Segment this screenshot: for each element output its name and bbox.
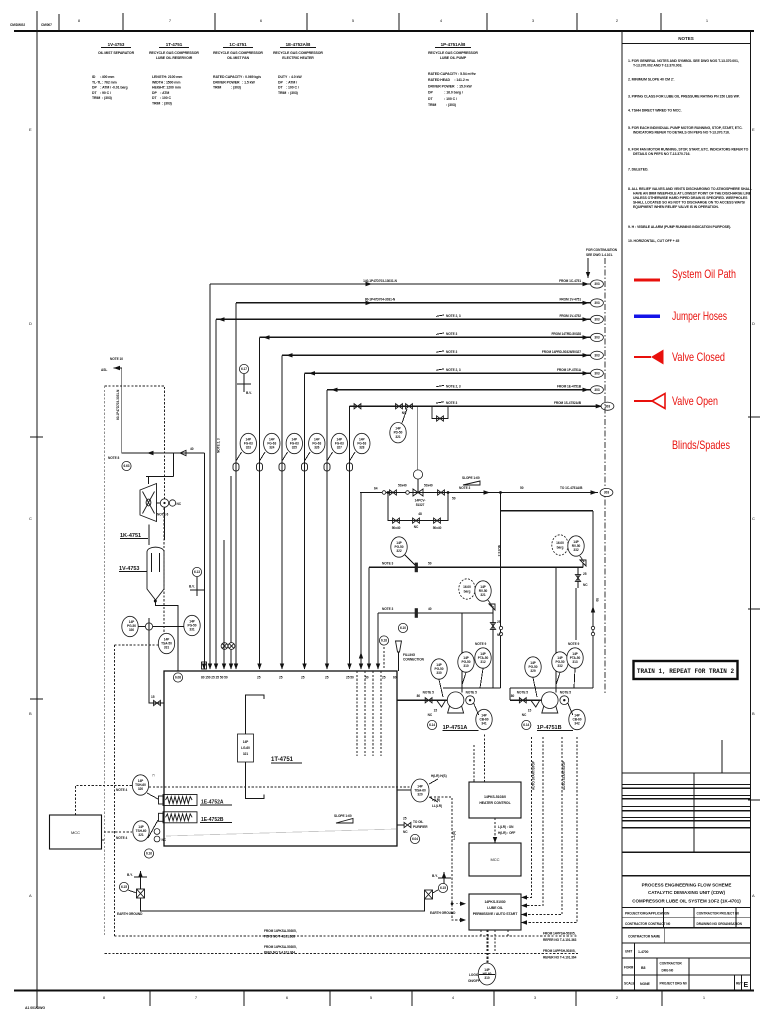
svg-text:NOTE 5: NOTE 5	[517, 691, 528, 695]
svg-text:Valve Closed: Valve Closed	[672, 350, 725, 364]
svg-text:NOTE 10: NOTE 10	[110, 357, 123, 361]
svg-text:NOTE 3: NOTE 3	[446, 401, 457, 405]
small valve circles above tank	[221, 643, 228, 650]
valve stub below discharge A	[577, 567, 579, 588]
L3 drop pipe	[215, 319, 217, 669]
heater control box	[469, 782, 521, 818]
svg-text:C: C	[752, 516, 755, 521]
arrow on L1	[366, 282, 373, 286]
separator overhead pipe	[223, 540, 225, 669]
svg-text:CONTRACTOR PROJECT N0: CONTRACTOR PROJECT N0	[697, 912, 740, 916]
svg-text:9. H : VISIBLE ALARM (PUMP RUN: 9. H : VISIBLE ALARM (PUMP RUNNING INDIC…	[628, 225, 731, 229]
svg-text:DT : 100 C /: DT : 100 C /	[428, 97, 457, 101]
pump motor/check valve	[560, 696, 569, 705]
separator drain	[155, 601, 178, 672]
svg-text:NOTE 4: NOTE 4	[116, 836, 127, 840]
vertical pipe to reservoir x=259.5	[259, 337, 261, 669]
svg-text:25: 25	[497, 620, 501, 624]
svg-text:DT : 100 C /: DT : 100 C /	[278, 86, 299, 90]
arrow on L4	[263, 335, 270, 339]
svg-text:321: 321	[480, 593, 485, 597]
svg-text:6.08: 6.08	[175, 676, 181, 680]
svg-text:50: 50	[365, 676, 369, 680]
arrow into tank	[280, 664, 284, 670]
svg-text:Blinds/Spades: Blinds/Spades	[672, 438, 730, 452]
svg-text:B.V.: B.V.	[246, 391, 252, 395]
pressure transmitter balloon PTA-50 312	[475, 648, 491, 668]
suction fittings pump B	[514, 699, 542, 701]
header line L4 FROM 14TRD-50328	[260, 336, 591, 338]
lube oil reservoir 1T-4751	[164, 671, 397, 846]
svg-text:7. DELETED.: 7. DELETED.	[628, 168, 648, 172]
flow glass balloon FG-63 327	[331, 433, 347, 453]
RV-B tailpipe	[575, 588, 577, 640]
svg-text:TSH-60: TSH-60	[135, 783, 146, 787]
svg-text:TRIM : (303): TRIM : (303)	[92, 96, 112, 100]
svg-text:3. PIPING CLASS FOR LUBE OIL P: 3. PIPING CLASS FOR LUBE OIL PRESSURE RA…	[628, 95, 740, 99]
svg-text:1. FOR GENERAL NOTES AND SYMBO: 1. FOR GENERAL NOTES AND SYMBOL SEE DWG …	[628, 59, 739, 63]
svg-text:NOTE 2, 3: NOTE 2, 3	[446, 368, 461, 372]
auto start/stop signal 1	[521, 737, 531, 897]
svg-text:25: 25	[382, 676, 386, 680]
pressure gauge balloon PG-50 322	[405, 555, 415, 565]
header line L6 FROM 1P-4751A	[305, 372, 591, 374]
svg-text:6.63: 6.63	[123, 464, 129, 468]
suction fittings pump A	[420, 699, 448, 701]
svg-text:PROJECT DRG N0: PROJECT DRG N0	[660, 982, 688, 986]
svg-text:TSH-60: TSH-60	[136, 829, 147, 833]
svg-text:48: 48	[418, 512, 422, 516]
auto start/stop signal 4	[521, 737, 577, 923]
arrow into 303 L6	[583, 371, 590, 375]
svg-text:50: 50	[452, 497, 456, 501]
svg-text:342: 342	[574, 722, 579, 726]
fan outlet pipe	[230, 476, 232, 669]
svg-text:HEIGHT: 1200 mm: HEIGHT: 1200 mm	[152, 86, 181, 90]
svg-text:313: 313	[572, 660, 577, 664]
auto start/stop signal 3	[521, 737, 562, 915]
svg-text:PEFS NO T-4.101.363: PEFS NO T-4.101.363	[264, 935, 295, 939]
svg-text:80: 80	[417, 694, 421, 698]
svg-text:REFER NO T-4.101.363: REFER NO T-4.101.363	[543, 938, 577, 942]
temperature indicator switch balloon TISA-60 320	[411, 779, 429, 802]
arrow into tank	[229, 664, 233, 670]
svg-text:8. ALL RELIEF VALVES AND VENTS: 8. ALL RELIEF VALVES AND VENTS DISCHARGI…	[628, 187, 753, 191]
svg-text:1C-4751: 1C-4751	[229, 42, 247, 47]
svg-text:6.18: 6.18	[381, 639, 387, 643]
svg-text:332: 332	[573, 548, 578, 552]
flow glass balloon FG-63 326	[309, 433, 325, 453]
svg-text:PG-50: PG-50	[435, 667, 444, 671]
svg-text:NOTE 8: NOTE 8	[108, 456, 119, 460]
blind spade on discharge A	[415, 563, 418, 573]
motor NC circle	[169, 500, 175, 506]
off-page connector L1 303	[591, 280, 604, 288]
svg-text:PG-50: PG-50	[395, 545, 404, 549]
set pressure balloon barg	[459, 579, 475, 599]
svg-text:PURIFIER: PURIFIER	[413, 825, 428, 829]
svg-text:FG-63: FG-63	[312, 441, 321, 445]
svg-text:FROM 1E-4751B: FROM 1E-4751B	[557, 385, 582, 389]
svg-text:B.Y.: B.Y.	[432, 874, 438, 878]
svg-text:L-L(S): L-L(S)	[452, 831, 456, 840]
svg-text:PROCESS ENGINEERING FLOW SCHEM: PROCESS ENGINEERING FLOW SCHEME	[642, 883, 732, 888]
svg-text:AUTO START/STOP: AUTO START/STOP	[562, 760, 566, 790]
svg-text:CB-60: CB-60	[480, 717, 489, 721]
svg-text:6.15: 6.15	[121, 885, 127, 889]
pressure gauge balloon PG-50 330	[122, 616, 138, 636]
suction valve pump A	[425, 698, 432, 703]
svg-text:NOTE 5: NOTE 5	[466, 691, 477, 695]
svg-text:HAVE AN 8MM WEEPHOLE AT LOWEST: HAVE AN 8MM WEEPHOLE AT LOWEST POINT OF …	[633, 192, 752, 196]
valve NC on L8	[406, 404, 413, 409]
svg-text:FROM 1V-4751: FROM 1V-4751	[559, 298, 581, 302]
arrow into 303 L5	[583, 353, 590, 357]
svg-text:MCC: MCC	[490, 857, 499, 862]
svg-text:14PKS-51030: 14PKS-51030	[484, 900, 505, 904]
vent line to fan	[122, 452, 205, 454]
svg-text:6. FOR FAN MOTOR RUNNING, STOP: 6. FOR FAN MOTOR RUNNING, STOP, START, E…	[628, 148, 749, 152]
svg-text:D: D	[29, 321, 32, 326]
svg-text:CB-60: CB-60	[573, 717, 582, 721]
svg-text:NC: NC	[403, 830, 408, 834]
svg-text:303: 303	[594, 354, 599, 358]
svg-text:CM/DWG2: CM/DWG2	[10, 23, 25, 27]
svg-text:NC: NC	[177, 502, 182, 506]
svg-text:DRIVER POWER : 1.5 kW: DRIVER POWER : 1.5 kW	[213, 80, 255, 84]
svg-text:321: 321	[395, 435, 400, 439]
svg-text:RV-50: RV-50	[479, 589, 488, 593]
svg-text:TRIM : (303): TRIM : (303)	[278, 91, 298, 95]
flow glass balloon FG-63 328	[354, 433, 370, 453]
table 1E-4752A/B data	[278, 75, 302, 95]
svg-text:LUBE OIL RESERVOIR: LUBE OIL RESERVOIR	[156, 56, 193, 60]
svg-text:LUBE OIL PUMP: LUBE OIL PUMP	[440, 56, 467, 60]
permissive box	[469, 894, 521, 930]
flow glass balloon FG-63 323	[240, 433, 256, 453]
svg-text:B.V.: B.V.	[189, 585, 195, 589]
continuation arrow	[587, 258, 589, 278]
svg-text:NC: NC	[162, 838, 167, 842]
off-page connector L5 303	[591, 351, 604, 359]
MCC control box	[469, 843, 521, 876]
pump 1P-4751A	[447, 692, 464, 713]
svg-text:50: 50	[428, 562, 432, 566]
svg-text:60: 60	[393, 676, 397, 680]
svg-text:barg: barg	[557, 545, 564, 549]
svg-text:D: D	[752, 321, 755, 326]
drawing reference 6.63	[122, 461, 131, 470]
suction drop A	[500, 493, 502, 689]
vibration signals from check monitors	[484, 735, 486, 783]
svg-text:System Oil Path: System Oil Path	[672, 267, 736, 281]
LEGEND	[634, 267, 736, 452]
svg-text:DRG N0: DRG N0	[662, 969, 674, 973]
table 1T-4751 data	[152, 75, 182, 106]
drawing reference 6.14	[522, 720, 531, 729]
svg-text:1-4700: 1-4700	[638, 950, 649, 954]
svg-text:15: 15	[528, 709, 532, 713]
table 1V-4753 data	[92, 75, 128, 100]
svg-text:15: 15	[434, 709, 438, 713]
svg-text:FROM 14PRD-50326/50327: FROM 14PRD-50326/50327	[542, 350, 581, 354]
electric heater 1E-4752B	[163, 812, 197, 823]
purifier valve NC	[404, 822, 411, 827]
arrow into tank	[347, 664, 351, 670]
arrow down	[586, 272, 590, 278]
svg-text:NOTE 5: NOTE 5	[423, 691, 434, 695]
pressure gauge balloon PG-50 331	[184, 615, 200, 635]
auto start/stop signal 2	[521, 737, 543, 906]
temperature switch high balloon TSH-60 321	[133, 821, 149, 841]
svg-text:6.14: 6.14	[523, 723, 529, 727]
svg-text:FROM 14TRD-50328: FROM 14TRD-50328	[552, 332, 582, 336]
arrow into tank	[202, 664, 206, 670]
pressure transmitter balloon PTA-50 313	[567, 648, 583, 668]
svg-text:FG-63: FG-63	[335, 441, 344, 445]
svg-text:ID : 400 mm: ID : 400 mm	[92, 75, 114, 79]
svg-text:80-1P47D703-3031-N: 80-1P47D703-3031-N	[116, 389, 120, 420]
arrow into tank	[222, 664, 226, 670]
svg-text:AUTO START/STOP: AUTO START/STOP	[532, 760, 536, 790]
blind spade on discharge B	[415, 608, 418, 618]
svg-text:25: 25	[583, 572, 587, 576]
permissive box bottom risers	[480, 930, 482, 936]
drawing reference 6.17	[239, 364, 248, 373]
svg-text:EQUIPMENT WHEN RELIEF VALVE IS: EQUIPMENT WHEN RELIEF VALVE IS IN OPERAT…	[633, 205, 719, 209]
svg-text:E: E	[29, 127, 32, 132]
header line L8 FROM 1S-4752A/B	[350, 405, 602, 407]
header line L5 FROM 14PRD-50326/50327	[282, 354, 591, 356]
flow glass balloon FG-63 325	[286, 433, 302, 453]
differential pressure indicator balloon PD-50 321	[390, 423, 406, 443]
pipe flange	[324, 463, 330, 471]
right column right edge	[750, 31, 752, 990]
svg-text:NOTE 2, 3: NOTE 2, 3	[217, 438, 221, 453]
vertical pipe to reservoir x=327.0	[326, 390, 328, 669]
svg-text:A: A	[752, 893, 755, 898]
right column left edge	[621, 31, 623, 990]
revision rows	[622, 783, 751, 785]
vertical pipe to reservoir x=236.0	[235, 303, 237, 669]
svg-text:6.16: 6.16	[146, 852, 152, 856]
TISA signal drop to permissive box	[430, 797, 466, 920]
svg-text:NOTE 9: NOTE 9	[568, 642, 579, 646]
suction header B	[510, 687, 593, 689]
svg-text:303: 303	[594, 282, 599, 286]
supply manifold line TO 1C-4751A/B	[360, 492, 598, 494]
svg-text:LOGIC: LOGIC	[469, 973, 480, 977]
arrow into 303 L3	[583, 317, 590, 321]
svg-text:330: 330	[129, 628, 134, 632]
pipe flange	[257, 463, 263, 471]
bypass valve	[434, 518, 441, 523]
off-page connector L2 303	[591, 299, 604, 307]
svg-text:SCALE: SCALE	[624, 982, 635, 986]
fan discharge header	[146, 476, 174, 478]
svg-text:MCC: MCC	[71, 830, 80, 835]
off-page connector L3 303	[591, 315, 604, 323]
suction line from tank	[397, 699, 420, 701]
top grid ticks	[122, 13, 124, 31]
header line L7 FROM 1E-4751B	[327, 389, 591, 391]
svg-text:6.13: 6.13	[194, 570, 200, 574]
arrow into tank	[234, 664, 238, 670]
svg-text:1K-4751: 1K-4751	[120, 533, 141, 539]
pipe flange	[233, 463, 239, 471]
arrow into 303 L1	[583, 282, 590, 286]
arrow on L5	[286, 353, 293, 357]
svg-text:PTA-50: PTA-50	[570, 656, 581, 660]
pressure gauge balloon PG-50 329	[525, 657, 541, 677]
svg-text:50x40: 50x40	[424, 484, 433, 488]
drawing reference 6.10	[398, 623, 407, 632]
svg-text:NOTE 4: NOTE 4	[116, 788, 127, 792]
svg-text:T-13.370.002 AND T-13.370.003.: T-13.370.002 AND T-13.370.003.	[633, 64, 682, 68]
svg-text:FG-63: FG-63	[357, 441, 366, 445]
left margin tick	[30, 436, 43, 438]
couplings on suction drop	[591, 626, 594, 629]
svg-text:FROM 1P-4751A: FROM 1P-4751A	[557, 368, 582, 372]
svg-text:TRIM : (303): TRIM : (303)	[152, 102, 172, 106]
drawing reference 6.15	[438, 883, 447, 892]
svg-text:FG-63: FG-63	[267, 441, 276, 445]
svg-text:HEATER CONTROL: HEATER CONTROL	[479, 801, 511, 805]
svg-text:PG-50: PG-50	[529, 665, 538, 669]
dashed enclosure	[105, 386, 165, 499]
svg-text:RV-50: RV-50	[572, 544, 581, 548]
suction drop B	[592, 511, 594, 688]
svg-text:TSA-50: TSA-50	[161, 641, 172, 645]
svg-text:1V-4753: 1V-4753	[108, 42, 125, 47]
arrow on L7	[331, 388, 338, 392]
vertical pipe to reservoir x=282.0	[281, 355, 283, 669]
svg-text:NOTE 3: NOTE 3	[497, 545, 501, 556]
arrow into 303 L4	[583, 335, 590, 339]
svg-text:SLOPE 1:60: SLOPE 1:60	[462, 476, 480, 480]
svg-text:328: 328	[359, 446, 364, 450]
legend system oil path line	[634, 279, 660, 282]
svg-text:6.15: 6.15	[440, 886, 446, 890]
svg-text:NC: NC	[428, 713, 433, 717]
manifold block valve	[390, 490, 397, 495]
svg-text:barg: barg	[464, 589, 471, 593]
svg-text:LL(LR): LL(LR)	[432, 804, 442, 808]
arrow into 303 L8	[596, 404, 603, 408]
signal to heater control	[149, 786, 411, 788]
arrow into 303 L2	[583, 301, 590, 305]
svg-text:TO 1C-4751A/B: TO 1C-4751A/B	[560, 486, 583, 490]
svg-text:NOTE 3: NOTE 3	[459, 486, 470, 490]
svg-text:B: B	[29, 711, 32, 716]
arrow on L2	[366, 301, 373, 305]
svg-text:1V-4753: 1V-4753	[119, 566, 140, 572]
pressure gauge balloon PG-50 332	[552, 652, 568, 672]
internal dashed standpipes	[356, 671, 358, 756]
svg-text:TRIM : (303): TRIM : (303)	[213, 86, 241, 90]
border bottom line	[14, 989, 754, 991]
gauge header	[138, 626, 184, 628]
svg-text:NC: NC	[522, 713, 527, 717]
valve on L8	[354, 404, 361, 409]
drawing reference 6.08	[173, 673, 182, 682]
svg-text:RECYCLE GAS COMPRESSOR: RECYCLE GAS COMPRESSOR	[149, 51, 199, 55]
legend valve closed symbol	[634, 356, 651, 358]
bottom signal bus 1	[115, 935, 579, 937]
svg-text:TRIM : (303): TRIM : (303)	[428, 103, 456, 107]
svg-text:326: 326	[314, 446, 319, 450]
svg-text:NOTE 3: NOTE 3	[446, 332, 457, 336]
off-page connector L7 303	[591, 386, 604, 394]
earth ground left	[117, 871, 147, 916]
svg-text:FILLING: FILLING	[403, 653, 416, 657]
svg-text:DP : ATM / -0.01 barg: DP : ATM / -0.01 barg	[92, 86, 128, 90]
motor signal dashed	[163, 508, 165, 632]
arrow into tank	[302, 664, 306, 670]
fan to separator line	[148, 525, 150, 546]
svg-text:40: 40	[190, 447, 194, 451]
svg-text:6.17: 6.17	[241, 367, 247, 371]
pipe flange	[279, 463, 285, 471]
svg-text:14PCV-: 14PCV-	[415, 499, 426, 503]
svg-text:RATED HEAD : 141.2 m: RATED HEAD : 141.2 m	[428, 78, 469, 82]
svg-text:UNIT: UNIT	[625, 950, 632, 954]
arrow into 303	[591, 490, 598, 494]
block valve NC	[490, 623, 495, 630]
svg-text:4. TSHH DIRECT WIRED TO MCC.: 4. TSHH DIRECT WIRED TO MCC.	[628, 109, 682, 113]
svg-text:310: 310	[484, 976, 489, 980]
svg-text:NOTE 2, 3: NOTE 2, 3	[446, 314, 461, 318]
arrow into tank	[214, 664, 218, 670]
svg-text:SHALL LOCATED SO AS NOT TO DIS: SHALL LOCATED SO AS NOT TO DISCHARGE ON …	[633, 201, 745, 205]
svg-text:14PKS-5103/0: 14PKS-5103/0	[484, 795, 506, 799]
off-page connector L4 303	[591, 333, 604, 341]
control valve 14PCV-51327	[413, 489, 423, 496]
svg-text:H(LR) H(S): H(LR) H(S)	[431, 774, 447, 778]
level gauge bracket	[246, 695, 265, 799]
svg-text:322: 322	[396, 549, 401, 553]
svg-text:10. HORIZONTAL, CUT OFF + 45: 10. HORIZONTAL, CUT OFF + 45	[628, 239, 679, 243]
svg-text:50x40: 50x40	[398, 484, 407, 488]
svg-text:FROM 1V-4752: FROM 1V-4752	[559, 314, 581, 318]
svg-text:50: 50	[520, 486, 524, 490]
svg-text:INDICATORS REFER TO DETAILS ON: INDICATORS REFER TO DETAILS ON PEFS NO T…	[633, 131, 730, 135]
svg-text:320: 320	[417, 793, 422, 797]
svg-text:B.Y.: B.Y.	[127, 873, 133, 877]
svg-text:TRAIN 1, REPEAT FOR TRAIN 2: TRAIN 1, REPEAT FOR TRAIN 2	[637, 668, 735, 675]
L1 drop pipe	[209, 284, 211, 669]
legend jumper hoses line	[634, 314, 660, 318]
svg-text:E: E	[752, 127, 755, 132]
svg-text:303: 303	[594, 301, 599, 305]
TITLE BLOCK	[622, 740, 751, 990]
empty band	[622, 875, 751, 877]
svg-text:PG-50: PG-50	[127, 624, 136, 628]
svg-text:NOTE 6: NOTE 6	[157, 513, 168, 517]
svg-text:51327: 51327	[416, 503, 425, 507]
svg-text:REFER NO T-4.101.364: REFER NO T-4.101.364	[543, 956, 577, 960]
filler pipes right	[383, 647, 385, 669]
svg-text:50: 50	[595, 598, 599, 602]
svg-text:50x40: 50x40	[433, 526, 442, 530]
drain valve NC near heater B	[154, 829, 160, 835]
svg-text:2. MINIMUM SLOPE 40 CM 2'.: 2. MINIMUM SLOPE 40 CM 2'.	[628, 78, 675, 82]
svg-text:325: 325	[292, 446, 297, 450]
discharge header B	[378, 612, 493, 614]
hand switch balloon HS-60 310	[478, 963, 496, 985]
svg-text:5. FOR EACH INDIVIDUAL PUMP MO: 5. FOR EACH INDIVIDUAL PUMP MOTOR RUNNIN…	[628, 126, 743, 130]
svg-text:DT : 100 C: DT : 100 C	[152, 96, 172, 100]
